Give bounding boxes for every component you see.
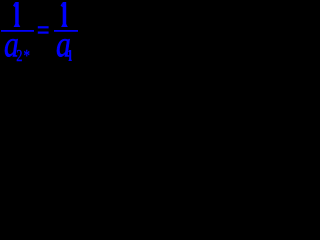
left numerator 1 xyxy=(13,2,20,27)
equation: 1 / a_{2*} = 1 / a_1 xyxy=(0,0,79,67)
right numerator 1 xyxy=(61,2,68,27)
svg-text:*: * xyxy=(24,47,30,65)
equals sign top bar xyxy=(38,26,49,28)
left fraction bar xyxy=(1,30,34,32)
equals sign bottom bar xyxy=(38,32,49,34)
svg-text:a: a xyxy=(56,24,71,65)
subscript 1 xyxy=(68,50,72,61)
svg-text:2: 2 xyxy=(16,47,22,65)
right fraction bar xyxy=(54,30,78,32)
